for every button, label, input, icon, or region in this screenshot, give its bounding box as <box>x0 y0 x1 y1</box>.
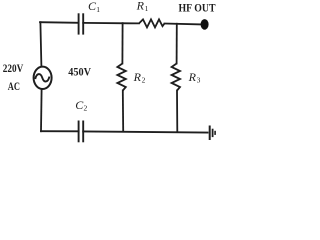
resistor R2 <box>117 64 125 91</box>
wire top middle segment <box>83 22 139 25</box>
ground <box>210 126 215 141</box>
svg-text:2: 2 <box>84 104 88 113</box>
svg-text:3: 3 <box>197 75 201 84</box>
wire R3 branch upper <box>176 24 178 64</box>
wire left vertical upper <box>40 22 41 66</box>
wire R3 branch lower <box>176 91 178 133</box>
wire R2 branch lower <box>122 91 124 132</box>
wire top right segment <box>165 23 202 26</box>
svg-text:R: R <box>136 0 145 12</box>
svg-text:1: 1 <box>96 5 100 14</box>
wire top left segment <box>40 21 79 24</box>
capacitor C2 <box>79 121 84 143</box>
wire bottom left segment <box>41 130 79 132</box>
svg-text:AC: AC <box>8 81 20 93</box>
HF OUT terminal dot <box>201 19 209 30</box>
capacitor C1 <box>79 13 84 34</box>
svg-text:450V: 450V <box>68 65 91 79</box>
svg-text:220V: 220V <box>3 63 24 75</box>
svg-text:2: 2 <box>142 75 146 84</box>
svg-text:R: R <box>133 70 142 84</box>
wire R2 branch upper <box>121 23 123 63</box>
wire left vertical lower <box>40 89 43 131</box>
resistor R3 <box>172 64 180 91</box>
svg-text:1: 1 <box>145 4 149 13</box>
resistor R1 <box>139 19 165 27</box>
AC source U1 <box>34 67 52 89</box>
AC source sine wave <box>35 74 49 81</box>
wire bottom middle segment <box>83 131 207 132</box>
svg-text:R: R <box>188 70 197 84</box>
svg-text:HF OUT: HF OUT <box>179 0 216 14</box>
